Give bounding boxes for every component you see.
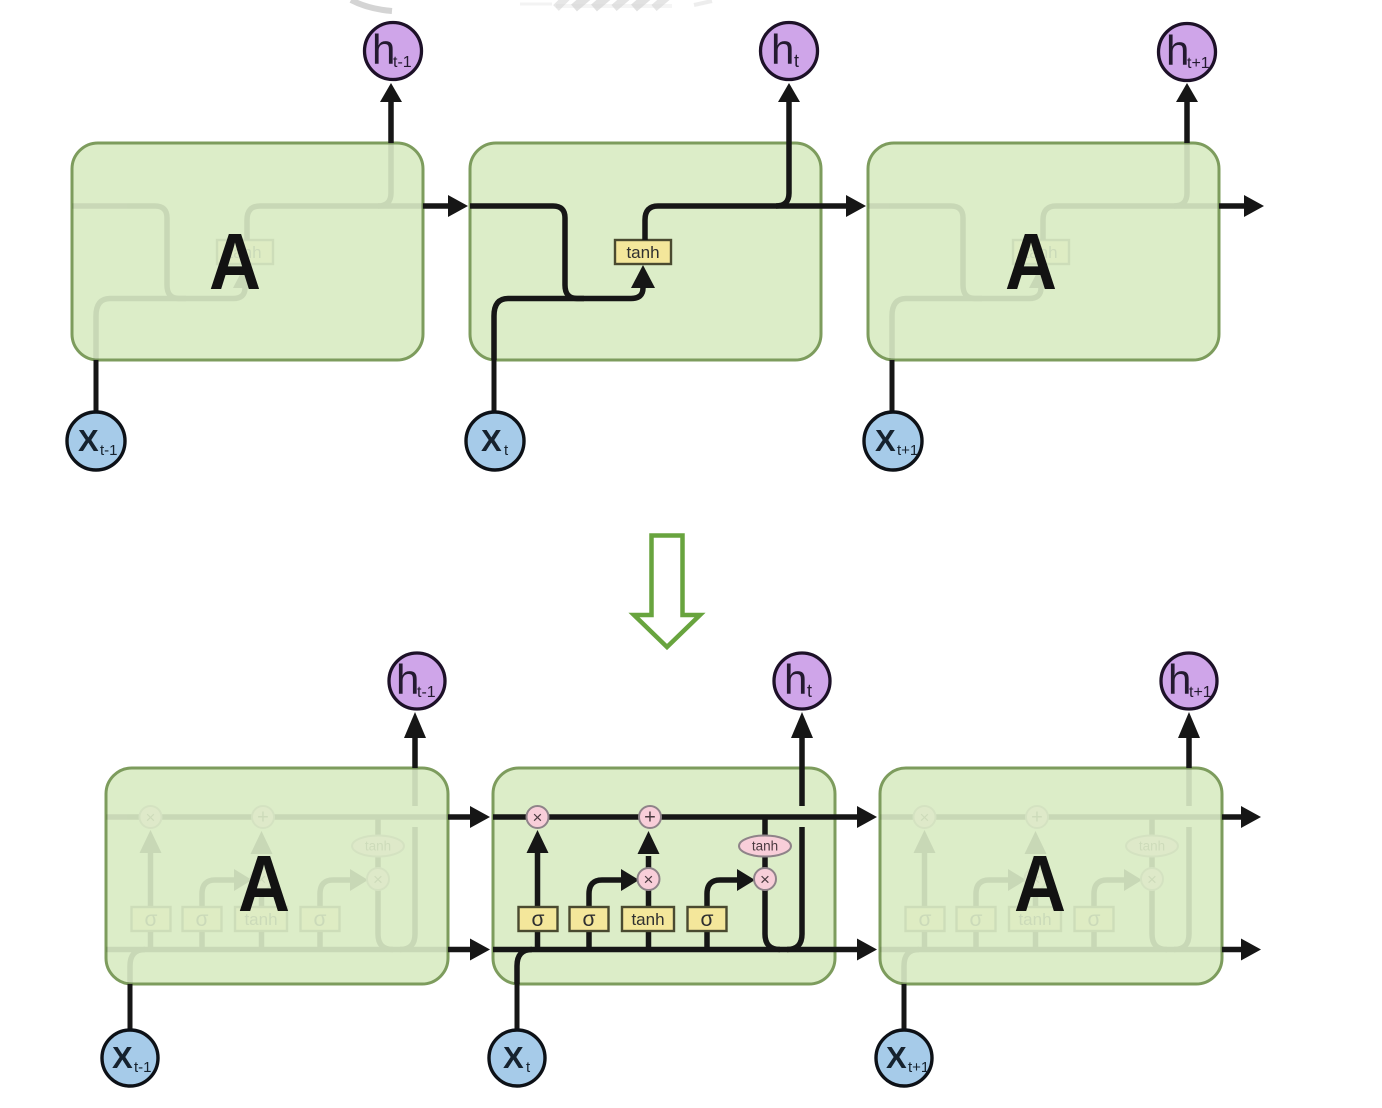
svg-text:t-1: t-1 xyxy=(417,684,436,701)
svg-text:A: A xyxy=(238,839,290,928)
node h t+1 (top) xyxy=(1159,24,1216,81)
svg-text:t-1: t-1 xyxy=(134,1059,152,1076)
svg-text:h: h xyxy=(372,26,395,73)
cell A t-1 (top left) xyxy=(72,143,423,360)
arrow cell1 to cell2 (top) xyxy=(423,195,468,217)
svg-text:t+1: t+1 xyxy=(1187,55,1210,72)
svg-text:t+1: t+1 xyxy=(1189,684,1212,701)
svg-text:A: A xyxy=(209,217,261,306)
cell A t-1 (bottom left) xyxy=(106,768,448,984)
svg-text:X: X xyxy=(112,1040,133,1075)
h t+1 output arrow (bottom) xyxy=(1178,712,1200,768)
svg-text:X: X xyxy=(78,423,99,458)
arrow cell2 to cell3 (top) xyxy=(821,195,866,217)
svg-text:t: t xyxy=(807,681,812,701)
x t input wire (bottom) xyxy=(515,984,520,1031)
svg-text:t+1: t+1 xyxy=(897,442,918,459)
svg-text:t+1: t+1 xyxy=(908,1059,929,1076)
svg-text:X: X xyxy=(503,1040,524,1075)
h t output arrow (top) xyxy=(778,83,800,143)
svg-text:X: X xyxy=(481,423,502,458)
h t-1 output arrow (bottom) xyxy=(404,712,426,768)
svg-text:h: h xyxy=(784,656,807,703)
big green transform arrow xyxy=(634,536,700,648)
node h t-1 (bottom) xyxy=(389,653,445,709)
cell A t+1 (bottom right) xyxy=(880,768,1222,984)
svg-text:h: h xyxy=(1166,27,1189,74)
node x t+1 (bottom) xyxy=(876,1030,932,1086)
svg-text:t-1: t-1 xyxy=(100,442,118,459)
cell A t (bottom middle, LSTM detail) xyxy=(493,768,835,984)
arrows cell3 out (bottom) xyxy=(1222,806,1261,961)
svg-text:h: h xyxy=(396,656,419,703)
x t input wire (top) xyxy=(492,360,497,413)
node h t (top) xyxy=(761,23,818,80)
x t+1 input wire (top) xyxy=(890,360,895,413)
cell A t (top middle) xyxy=(470,143,821,360)
h t+1 output arrow (top) xyxy=(1176,83,1198,143)
x t+1 input wire (bottom) xyxy=(902,984,907,1031)
h t-1 output arrow (top) xyxy=(380,83,402,143)
x t-1 input wire (bottom) xyxy=(128,984,133,1031)
svg-text:h: h xyxy=(1168,656,1191,703)
node x t (bottom) xyxy=(489,1030,545,1086)
arrows cell1 to cell2 (bottom, C and h lines) xyxy=(448,806,490,961)
node h t+1 (bottom) xyxy=(1161,653,1217,709)
svg-text:t-1: t-1 xyxy=(393,54,412,71)
node x t (top) xyxy=(466,412,524,470)
node x t+1 (top) xyxy=(864,412,922,470)
node h t-1 (top) xyxy=(365,23,422,80)
node x t-1 (top) xyxy=(67,412,125,470)
svg-text:X: X xyxy=(875,423,896,458)
svg-text:A: A xyxy=(1014,839,1066,928)
arrows cell2 to cell3 (bottom) xyxy=(835,806,877,961)
x t-1 input wire (top) xyxy=(94,360,99,413)
node x t-1 (bottom) xyxy=(102,1030,158,1086)
arrow cell3 out (top) xyxy=(1219,195,1264,217)
h t output arrow (bottom) xyxy=(791,712,813,768)
svg-text:h: h xyxy=(771,26,794,73)
svg-text:X: X xyxy=(886,1040,907,1075)
cell A t+1 (top right) xyxy=(868,143,1219,360)
watermark swoosh top xyxy=(351,0,712,11)
svg-text:A: A xyxy=(1005,217,1057,306)
svg-text:t: t xyxy=(794,51,799,71)
node h t (bottom) xyxy=(774,653,830,709)
